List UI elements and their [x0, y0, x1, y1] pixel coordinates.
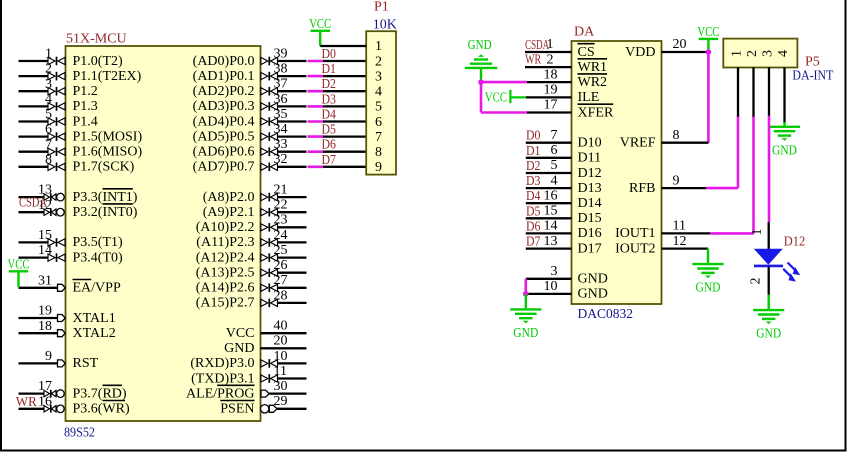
svg-text:89S52: 89S52 — [64, 426, 95, 441]
svg-text:19: 19 — [544, 83, 558, 98]
MCU pin 24 ((A11)P2.3) wire and marker — [196, 228, 306, 250]
svg-text:33: 33 — [274, 137, 288, 152]
svg-text:2: 2 — [375, 54, 382, 69]
DA pin 3 (GND) name and number — [551, 264, 608, 287]
svg-text:RFB: RFB — [629, 181, 655, 196]
svg-text:CSDA: CSDA — [19, 196, 48, 211]
svg-text:4: 4 — [375, 85, 382, 100]
magenta wire VCC down to VREF row — [707, 52, 710, 143]
svg-text:CSDA: CSDA — [525, 38, 550, 53]
svg-text:20: 20 — [673, 37, 687, 52]
MCU pin 13 (P3.3(INT1)) wire and marker — [19, 183, 138, 205]
wire VCC to P1 pin 1 — [320, 45, 366, 47]
svg-text:GND: GND — [224, 341, 254, 356]
svg-text:3: 3 — [761, 50, 776, 57]
svg-text:D2: D2 — [322, 77, 337, 92]
MCU pin 37 ((AD2)P0.2) wire and marker — [193, 77, 307, 99]
MCU pin 17 (P3.7(RD)) wire and marker — [19, 379, 127, 401]
MCU pin 36 ((AD3)P0.3) wire and marker — [193, 92, 307, 114]
svg-text:14: 14 — [38, 243, 52, 258]
MCU pin 1 (P1.0(T2)) wire and marker — [19, 47, 124, 69]
svg-text:(RXD)P3.0: (RXD)P3.0 — [190, 356, 254, 371]
svg-text:38: 38 — [274, 62, 288, 77]
P5 pin 4 lead — [783, 68, 785, 123]
wire net D0 stub to DA pin (D10) — [526, 129, 572, 144]
svg-text:(AD0)P0.0: (AD0)P0.0 — [193, 54, 255, 69]
svg-text:37: 37 — [274, 77, 288, 92]
MCU pin 9 (RST) wire and marker — [19, 349, 99, 371]
svg-text:23: 23 — [274, 213, 288, 228]
svg-text:9: 9 — [45, 349, 52, 364]
svg-text:VCC: VCC — [485, 90, 507, 105]
wire net D2 stub to DA pin (D12) — [526, 159, 572, 174]
svg-text:17: 17 — [38, 379, 52, 394]
DA pin 9 (RFB) name and number — [629, 173, 679, 196]
svg-text:P1.0(T2): P1.0(T2) — [73, 54, 124, 69]
DA pin 17 (XFER) name and number — [544, 98, 614, 121]
svg-text:D17: D17 — [578, 241, 602, 256]
svg-text:D0: D0 — [526, 129, 541, 144]
MCU pin 7 (P1.6(MISO)) wire and marker — [19, 137, 143, 159]
wire net D1 (MCU P0.1 to P1 pin 3) with magenta segment — [308, 62, 367, 77]
MCU pin 2 (P1.1(T2EX)) wire and marker — [19, 62, 142, 84]
P5 pin 2 number (rotated) — [745, 50, 760, 57]
svg-text:20: 20 — [274, 334, 288, 349]
P1 pin 5 number — [375, 100, 382, 115]
MCU pin 30 (ALE/PROG) wire and marker — [186, 379, 306, 401]
magenta wire RFB to P5 pin 1 — [706, 116, 738, 189]
DA designator — [574, 25, 595, 40]
MCU part number 89S52 — [64, 426, 95, 441]
svg-text:21: 21 — [274, 183, 288, 198]
MCU pin 22 ((A9)P2.1) wire and marker — [203, 198, 307, 220]
svg-text:(A8)P2.0: (A8)P2.0 — [203, 190, 255, 205]
svg-text:WR: WR — [525, 52, 541, 67]
svg-text:XTAL2: XTAL2 — [73, 326, 116, 341]
MCU pin 15 (P3.5(T1)) wire and marker — [19, 228, 124, 250]
svg-text:39: 39 — [274, 46, 288, 61]
svg-text:8: 8 — [375, 145, 382, 160]
svg-text:5: 5 — [375, 100, 382, 115]
sheet border right — [845, 0, 847, 452]
resistor pack P1 body — [366, 31, 396, 174]
P5 pin 3 lead — [768, 68, 770, 117]
svg-text:8: 8 — [45, 152, 52, 167]
svg-text:(AD5)P0.5: (AD5)P0.5 — [193, 129, 255, 144]
P1 pin 9 number — [375, 160, 382, 175]
svg-text:DAC0832: DAC0832 — [578, 307, 634, 322]
magenta wire P5 pin 3 down to LED — [768, 116, 771, 222]
svg-text:P1.1(T2EX): P1.1(T2EX) — [73, 69, 142, 84]
LED D12 light emission arrows — [783, 263, 800, 282]
svg-text:D5: D5 — [322, 123, 337, 138]
svg-text:16: 16 — [38, 394, 52, 409]
svg-text:5: 5 — [45, 107, 52, 122]
svg-text:D1: D1 — [526, 144, 541, 159]
MCU pin 10 ((RXD)P3.0) wire and marker — [190, 349, 306, 371]
wire net D4 (MCU P0.4 to P1 pin 6) with magenta segment — [308, 108, 367, 123]
MCU pin 5 (P1.4) wire and marker — [19, 107, 98, 129]
svg-text:10: 10 — [274, 349, 288, 364]
svg-text:GND: GND — [756, 327, 781, 342]
svg-text:RST: RST — [73, 356, 99, 371]
svg-text:VCC: VCC — [697, 25, 719, 40]
VCC symbol left of MCU — [8, 258, 30, 288]
svg-text:25: 25 — [274, 243, 288, 258]
svg-text:22: 22 — [274, 198, 288, 213]
svg-text:D10: D10 — [578, 136, 602, 151]
DA pin 13 (D17) name and number — [544, 234, 602, 257]
wire net D6 (MCU P0.6 to P1 pin 8) with magenta segment — [308, 138, 367, 153]
svg-text:P1.3: P1.3 — [73, 99, 98, 114]
svg-text:IOUT1: IOUT1 — [615, 226, 655, 241]
LED D12 diode symbol — [754, 249, 783, 266]
svg-text:(A13)P2.5: (A13)P2.5 — [196, 266, 255, 281]
svg-text:32: 32 — [274, 152, 288, 167]
MCU pin 3 (P1.2) wire and marker — [19, 77, 98, 99]
svg-text:XTAL1: XTAL1 — [73, 311, 116, 326]
svg-text:D1: D1 — [322, 62, 337, 77]
wire net D1 stub to DA pin (D11) — [526, 144, 572, 159]
wire net D5 (MCU P0.5 to P1 pin 7) with magenta segment — [308, 123, 367, 138]
svg-text:11: 11 — [673, 219, 686, 234]
DA pin 14 (D16) name and number — [544, 219, 602, 242]
DA pin 18 (WR2) name and number — [544, 67, 608, 90]
svg-text:9: 9 — [673, 173, 680, 188]
svg-text:P3.4(T0): P3.4(T0) — [73, 250, 124, 265]
svg-text:35: 35 — [274, 107, 288, 122]
svg-text:(AD2)P0.2: (AD2)P0.2 — [193, 84, 255, 99]
wire CSDA stub to DA pin 1 (CS) — [525, 51, 572, 53]
svg-text:9: 9 — [375, 160, 382, 175]
svg-text:2: 2 — [745, 50, 760, 57]
MCU pin 25 ((A12)P2.4) wire and marker — [196, 243, 307, 265]
P1 pin 4 number — [375, 85, 382, 100]
P1 pin 8 number — [375, 145, 382, 160]
wire DA pin 11 (IOUT1) stub — [662, 232, 711, 234]
DA pin 7 (D10) name and number — [551, 128, 602, 151]
DA pin 8 (VREF) name and number — [620, 128, 680, 151]
wire WR stub to DA pin 2 (WR1) — [525, 66, 572, 68]
svg-text:15: 15 — [38, 228, 52, 243]
svg-text:VCC: VCC — [226, 326, 255, 341]
P5 pin 4 number (rotated) — [776, 50, 791, 57]
net label CSDA on MCU pin 12 wire — [19, 196, 48, 211]
svg-text:D2: D2 — [526, 159, 541, 174]
P1 designator — [374, 0, 389, 15]
net label CSDA on DA pin 1 wire — [525, 38, 550, 53]
MCU pin 28 ((A15)P2.7) wire and marker — [196, 288, 307, 310]
GND symbol above DA left wiring — [465, 38, 498, 82]
svg-text:(A11)P2.3: (A11)P2.3 — [196, 235, 254, 250]
LED D12 designator — [784, 235, 806, 250]
svg-text:1: 1 — [730, 50, 745, 57]
svg-text:(AD6)P0.6: (AD6)P0.6 — [193, 145, 255, 160]
svg-text:7: 7 — [375, 130, 382, 145]
MCU pin 31 (EA/VPP) wire and marker — [19, 273, 121, 295]
wire net D3 stub to DA pin (D13) — [526, 174, 572, 189]
svg-text:51X-MCU: 51X-MCU — [66, 32, 127, 47]
svg-text:ALE/PROG: ALE/PROG — [186, 386, 254, 401]
svg-text:GND: GND — [468, 38, 492, 53]
svg-text:(TXD)P3.1: (TXD)P3.1 — [191, 371, 254, 386]
P1 pin 2 number — [375, 54, 382, 69]
svg-text:P3.5(T1): P3.5(T1) — [73, 235, 124, 250]
svg-text:(A15)P2.7: (A15)P2.7 — [196, 296, 255, 311]
svg-text:P1: P1 — [374, 0, 389, 15]
svg-text:(A9)P2.1: (A9)P2.1 — [203, 205, 255, 220]
wire DA pin 10 GND stub — [526, 293, 572, 295]
MCU pin 11 ((TXD)P3.1) wire and marker — [191, 364, 306, 386]
wire net D2 (MCU P0.2 to P1 pin 4) with magenta segment — [308, 77, 367, 92]
P1 value 10K — [373, 18, 397, 33]
svg-text:10K: 10K — [373, 18, 397, 33]
svg-text:6: 6 — [551, 143, 558, 158]
svg-text:P3.3(INT1): P3.3(INT1) — [73, 190, 138, 205]
svg-text:D11: D11 — [578, 151, 602, 166]
svg-text:D0: D0 — [322, 47, 337, 62]
P5 pin 3 number (rotated) — [761, 50, 776, 57]
svg-text:7: 7 — [45, 137, 52, 152]
MCU 51X-MCU 89S52 body — [66, 46, 261, 421]
svg-text:PSEN: PSEN — [220, 402, 254, 417]
P5 pin 1 number (rotated) — [730, 50, 745, 57]
svg-text:24: 24 — [274, 228, 288, 243]
svg-text:8: 8 — [673, 128, 680, 143]
wire DA pin 9 (RFB) stub — [662, 187, 707, 189]
svg-text:15: 15 — [544, 204, 558, 219]
svg-text:P3.2(INT0): P3.2(INT0) — [73, 205, 138, 220]
svg-text:17: 17 — [544, 98, 558, 113]
P1 pin 1 number — [375, 39, 382, 54]
MCU pin 23 ((A10)P2.2) wire and marker — [196, 213, 307, 235]
MCU pin 40 (VCC) wire and marker — [226, 319, 307, 341]
wire net D7 (MCU P0.7 to P1 pin 9) with magenta segment — [308, 153, 367, 168]
DA pin 4 (D13) name and number — [551, 173, 602, 196]
net label WR on DA pin 2 wire — [525, 52, 541, 67]
svg-text:36: 36 — [274, 92, 288, 107]
DA pin 6 (D11) name and number — [551, 143, 602, 166]
svg-text:GND: GND — [578, 287, 608, 302]
svg-text:P3.7(RD): P3.7(RD) — [73, 386, 127, 401]
MCU pin 29 (PSEN) wire and marker — [220, 394, 306, 416]
DA pin 16 (D14) name and number — [544, 188, 602, 211]
magenta wire GND to DA pin 18 (WR2) — [478, 79, 571, 85]
DA pin 10 (GND) name and number — [544, 279, 608, 302]
svg-text:D13: D13 — [578, 181, 602, 196]
DA pin 1 (CS) name and number — [547, 37, 595, 60]
MCU pin 19 (XTAL1) wire and marker — [19, 304, 116, 326]
svg-text:GND: GND — [696, 281, 721, 296]
svg-text:11: 11 — [274, 364, 287, 379]
svg-text:D6: D6 — [526, 219, 541, 234]
svg-text:P5: P5 — [805, 55, 820, 70]
svg-text:4: 4 — [551, 173, 558, 188]
svg-text:(A10)P2.2: (A10)P2.2 — [196, 220, 255, 235]
svg-text:6: 6 — [375, 115, 382, 130]
svg-text:EA/VPP: EA/VPP — [73, 281, 121, 296]
DA pin 12 (IOUT2) name and number — [615, 234, 686, 257]
GND symbol under LED — [753, 295, 784, 342]
svg-text:(AD7)P0.7: (AD7)P0.7 — [193, 160, 255, 175]
svg-text:3: 3 — [375, 69, 382, 84]
svg-text:P1.2: P1.2 — [73, 84, 98, 99]
MCU pin 8 (P1.7(SCK)) wire and marker — [19, 152, 135, 174]
svg-text:VREF: VREF — [620, 136, 656, 151]
svg-text:29: 29 — [274, 394, 288, 409]
magenta wire joining DA GND pins — [523, 279, 529, 297]
svg-text:2: 2 — [45, 62, 52, 77]
svg-text:D14: D14 — [578, 196, 602, 211]
P1 pin 7 number — [375, 130, 382, 145]
svg-text:D3: D3 — [526, 174, 541, 189]
wire DA pin 12 (IOUT2) stub — [662, 247, 709, 249]
P5 pin 2 lead — [752, 68, 754, 117]
DAC U2 DA body — [572, 41, 662, 304]
svg-text:WR: WR — [16, 395, 38, 410]
svg-text:D4: D4 — [322, 108, 337, 123]
wire net D0 (MCU P0.0 to P1 pin 2) with magenta segment — [308, 47, 367, 62]
MCU pin 12 (P3.2(INT0)) wire and marker — [19, 198, 138, 220]
svg-text:1: 1 — [375, 39, 382, 54]
DA part number DAC0832 — [578, 307, 634, 322]
svg-text:GND: GND — [578, 272, 608, 287]
LED D12 anode lead (pin 1) — [750, 222, 769, 249]
svg-text:31: 31 — [38, 273, 52, 288]
wire net D4 stub to DA pin (D14) — [526, 189, 572, 204]
MCU pin 27 ((A14)P2.6) wire and marker — [196, 273, 307, 295]
MCU pin 20 (GND) wire and marker — [224, 334, 306, 356]
wire net D3 (MCU P0.3 to P1 pin 5) with magenta segment — [308, 92, 367, 107]
svg-text:GND: GND — [513, 326, 538, 341]
svg-text:2: 2 — [748, 278, 763, 285]
MCU pin 26 ((A13)P2.5) wire and marker — [196, 258, 307, 280]
svg-text:D4: D4 — [526, 189, 541, 204]
svg-text:12: 12 — [673, 234, 687, 249]
connector P5 body — [723, 39, 797, 68]
MCU pin 32 ((AD7)P0.7) wire and marker — [193, 152, 307, 174]
wire DA pin 20 (VDD) to VCC — [662, 51, 709, 53]
P5 pin 1 lead — [737, 68, 739, 117]
wire DA pin 8 (VREF) stub — [662, 142, 709, 144]
svg-text:D12: D12 — [784, 235, 806, 250]
svg-text:34: 34 — [274, 122, 288, 137]
svg-text:40: 40 — [274, 319, 288, 334]
MCU pin 4 (P1.3) wire and marker — [19, 92, 98, 114]
overline bars for active-low pin names — [73, 44, 614, 401]
svg-text:D15: D15 — [578, 211, 602, 226]
svg-text:P1.6(MISO): P1.6(MISO) — [73, 145, 143, 160]
net label WR on MCU pin 16 wire — [16, 395, 38, 410]
svg-text:D3: D3 — [322, 92, 337, 107]
svg-text:30: 30 — [274, 379, 288, 394]
GND symbol under P5 pin 4 — [769, 122, 800, 158]
svg-text:P1.5(MOSI): P1.5(MOSI) — [73, 129, 143, 144]
MCU pin 39 ((AD0)P0.0) wire and marker — [193, 46, 307, 68]
MCU pin 38 ((AD1)P0.1) wire and marker — [193, 62, 307, 84]
svg-text:D5: D5 — [526, 204, 541, 219]
svg-text:3: 3 — [551, 264, 558, 279]
P1 pin 3 number — [375, 69, 382, 84]
svg-text:7: 7 — [551, 128, 558, 143]
MCU designator 51X-MCU — [66, 32, 127, 47]
magenta wire GND down to XFER row — [480, 82, 483, 112]
wire DA pin 3 GND stub — [526, 278, 572, 280]
VCC symbol above DA right — [697, 25, 719, 55]
svg-text:14: 14 — [544, 219, 558, 234]
svg-text:IOUT2: IOUT2 — [615, 241, 655, 256]
svg-text:P1.4: P1.4 — [73, 114, 98, 129]
svg-text:(AD3)P0.3: (AD3)P0.3 — [193, 99, 255, 114]
DA pin 11 (IOUT1) name and number — [615, 219, 686, 242]
svg-text:18: 18 — [544, 67, 558, 82]
svg-text:D7: D7 — [526, 235, 541, 250]
magenta wire to DA pin 17 (XFER) — [481, 111, 572, 114]
svg-text:VDD: VDD — [625, 45, 655, 60]
svg-text:P1.7(SCK): P1.7(SCK) — [73, 160, 135, 175]
DA pin 19 (ILE) name and number — [544, 83, 600, 106]
DA pin 20 (VDD) name and number — [625, 37, 686, 60]
DA pin 2 (WR1) name and number — [547, 52, 608, 75]
svg-text:D7: D7 — [322, 153, 337, 168]
MCU pin 18 (XTAL2) wire and marker — [19, 319, 116, 341]
DA pin 15 (D15) name and number — [544, 204, 602, 227]
svg-text:18: 18 — [38, 319, 52, 334]
svg-text:16: 16 — [544, 188, 558, 203]
svg-text:4: 4 — [45, 92, 52, 107]
MCU pin 21 ((A8)P2.0) wire and marker — [203, 183, 307, 205]
svg-text:(AD4)P0.4: (AD4)P0.4 — [193, 114, 255, 129]
GND symbol below DA left — [510, 294, 541, 341]
svg-text:4: 4 — [776, 50, 791, 57]
svg-text:19: 19 — [38, 304, 52, 319]
svg-text:3: 3 — [45, 77, 52, 92]
wire net D7 stub to DA pin (D17) — [526, 235, 572, 250]
wire net D5 stub to DA pin (D15) — [526, 204, 572, 219]
magenta wire IOUT1 to P5 pin 2 — [710, 116, 754, 234]
svg-text:GND: GND — [772, 143, 797, 158]
MCU pin 35 ((AD4)P0.4) wire and marker — [193, 107, 307, 129]
sheet border left — [0, 0, 2, 452]
MCU pin 34 ((AD5)P0.5) wire and marker — [193, 122, 307, 144]
P5 designator — [805, 55, 820, 70]
svg-text:27: 27 — [274, 273, 288, 288]
P1 pin 6 number — [375, 115, 382, 130]
svg-text:2: 2 — [547, 52, 554, 67]
svg-text:(AD1)P0.1: (AD1)P0.1 — [193, 69, 255, 84]
svg-text:XFER: XFER — [578, 105, 614, 120]
svg-text:P3.6(WR): P3.6(WR) — [73, 402, 131, 417]
svg-text:CS: CS — [578, 45, 595, 60]
MCU pin 33 ((AD6)P0.6) wire and marker — [193, 137, 307, 159]
P5 value DA-INT — [792, 69, 833, 84]
svg-text:1: 1 — [750, 229, 765, 236]
svg-text:6: 6 — [45, 122, 52, 137]
svg-text:5: 5 — [551, 158, 558, 173]
svg-text:10: 10 — [544, 279, 558, 294]
svg-text:28: 28 — [274, 288, 288, 303]
svg-text:WR2: WR2 — [578, 75, 608, 90]
svg-text:(A12)P2.4: (A12)P2.4 — [196, 250, 255, 265]
MCU pin 14 (P3.4(T0)) wire and marker — [19, 243, 124, 265]
svg-text:DA-INT: DA-INT — [792, 69, 833, 84]
GND symbol below IOUT2 — [692, 249, 723, 296]
svg-text:(A14)P2.6: (A14)P2.6 — [196, 281, 255, 296]
svg-text:26: 26 — [274, 258, 288, 273]
VCC symbol sideways feeding DA pin 19 (ILE) — [485, 90, 572, 106]
MCU pin 16 (P3.6(WR)) wire and marker — [19, 394, 131, 416]
wire net D6 stub to DA pin (D16) — [526, 219, 572, 234]
